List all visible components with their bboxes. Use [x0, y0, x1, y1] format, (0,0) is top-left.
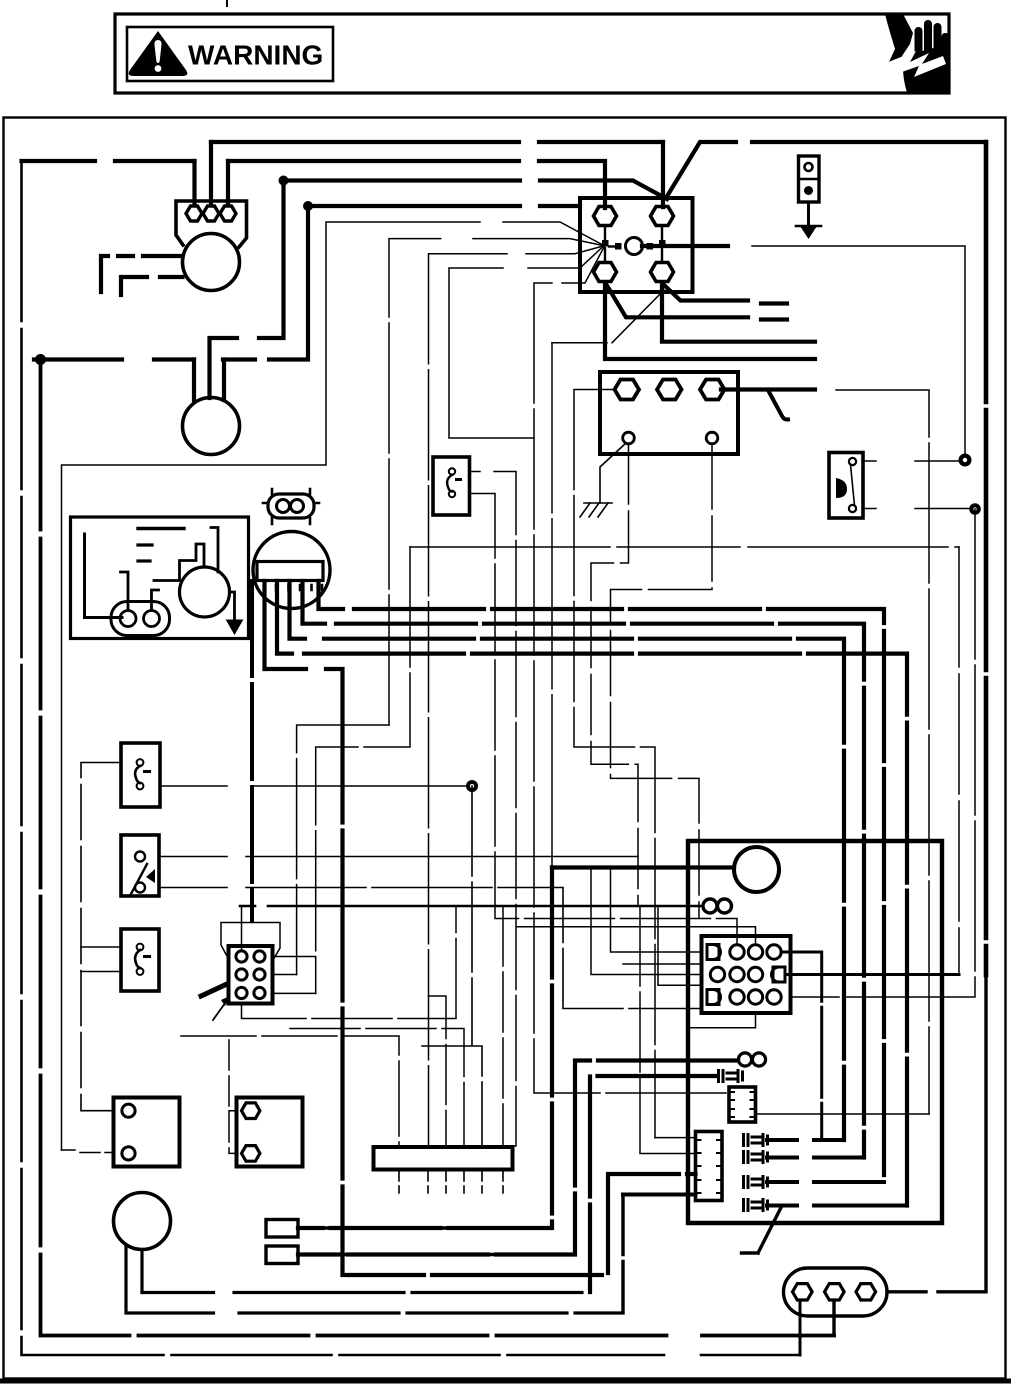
- compressor oval pin 2: [291, 500, 304, 513]
- strip wire y1137.6: [655, 1137, 696, 1139]
- TB terminal1 drop: [591, 444, 638, 906]
- TB hex 3: [700, 380, 725, 400]
- 6pin bottom pin wire to igniter lattice: [242, 906, 457, 1019]
- wire L4: [308, 204, 580, 208]
- TB ground symbol: [600, 443, 626, 503]
- control board arrow to ground: [230, 592, 235, 620]
- blower motor circle: [183, 234, 240, 291]
- igniter bar: [374, 1147, 513, 1170]
- switch1 left wire: [81, 763, 121, 1111]
- 12-pin row3: [707, 990, 721, 1005]
- 12-pin row1: [707, 945, 721, 960]
- plug pair feed wire: [590, 1076, 718, 1292]
- rect1 wire: [298, 1226, 552, 1229]
- TB disconnect lever: [768, 390, 788, 420]
- contactor hex bottom-right: [651, 263, 674, 282]
- bottom-left terminal box 1: [114, 1098, 180, 1167]
- switchB wires (middle small switch): [470, 472, 517, 1147]
- warning banner inner box: [127, 27, 333, 81]
- 12pin left wire y985: [658, 906, 702, 985]
- compressor pin2 wire: [265, 581, 696, 1275]
- control board dash 2: [138, 543, 152, 546]
- lattice y1036: [181, 1036, 399, 1147]
- switch2 top wire: [159, 856, 638, 858]
- board oval terminal circle 2: [144, 611, 160, 627]
- relay coil feed wire: [552, 865, 734, 869]
- contactor hexBR diagonal wire: [663, 284, 748, 301]
- wire right main vertical: [984, 142, 989, 975]
- blower plug terminal hex 3: [220, 206, 236, 221]
- wire blower hex1 drop: [192, 161, 196, 203]
- limit switch 2 box: [121, 835, 159, 896]
- middle limit switch box: [433, 457, 470, 515]
- oval hex 3: [856, 1284, 876, 1300]
- 6-pin connector block: [229, 946, 273, 1004]
- fuse / sensor device: [799, 156, 820, 202]
- gas valve line 1: [142, 1291, 590, 1294]
- relay coil circle: [734, 847, 779, 892]
- gas valve line 2: [126, 1245, 623, 1313]
- contactor hex top-left: [594, 207, 617, 226]
- gas valve drop 1: [140, 1250, 143, 1293]
- contactor wire left stub: [609, 245, 615, 247]
- 6-pin pointer arrow thin: [213, 999, 228, 1020]
- wire valve line2 riser: [621, 1195, 624, 1313]
- wire L3: [284, 181, 668, 200]
- gas valve circle: [114, 1193, 171, 1250]
- node dot A: [279, 176, 289, 186]
- node dot B: [303, 201, 313, 211]
- TB round terminal 1: [623, 432, 635, 444]
- 6-pin pointer arrow thick: [201, 984, 227, 996]
- board oval terminal circle 1: [120, 611, 136, 627]
- control board box: [71, 517, 249, 639]
- 12pin col3 top wire: [516, 927, 756, 945]
- wire dot E drop: [791, 509, 976, 997]
- limit switch 2 contacts: [135, 852, 145, 862]
- control board step trace: [154, 544, 204, 581]
- TB hex 1: [615, 380, 640, 400]
- 6pin right top/bottom wires: [273, 957, 316, 994]
- oval hex 1: [793, 1284, 813, 1300]
- pressure switch bottom wire: [863, 508, 970, 510]
- lattice jog 996: [429, 996, 447, 1147]
- wire blower hex2 drop: [209, 142, 213, 203]
- lattice y1028: [290, 1029, 464, 1148]
- wire blower hex3 drop: [226, 161, 230, 203]
- switch1 dot drop: [422, 786, 482, 1147]
- bus y906: [240, 905, 703, 908]
- compressor plug pin ticks: [264, 585, 322, 590]
- node dot D: [959, 454, 972, 467]
- compressor oval pin 1: [277, 500, 290, 513]
- wire dot C drop: [41, 360, 835, 1336]
- indicator circles 88: [703, 899, 717, 913]
- fan wire 4: [449, 247, 603, 439]
- contactor hexBL down wire: [605, 284, 815, 359]
- switch3 left wires: [81, 947, 121, 972]
- plug row1 wire: [767, 1138, 844, 1142]
- wire contactor coil right: [642, 244, 728, 248]
- node dot E: [969, 503, 981, 515]
- plug symbol row 4: [744, 1200, 768, 1211]
- 12pin row2 right wire: [785, 973, 959, 976]
- wire left border run: [22, 161, 801, 1355]
- wire condenser plug drops: [194, 360, 224, 401]
- control board terminal oval: [111, 602, 170, 636]
- blower plug terminal hex 1: [186, 206, 202, 221]
- pressure switch: [829, 453, 863, 519]
- bottom heavy border line: [0, 1379, 1011, 1384]
- TB terminal2 drop: [611, 444, 713, 919]
- wire L3 drop to y338: [210, 181, 284, 399]
- small relay box: [729, 1087, 756, 1122]
- oval hex1 drop: [799, 1301, 802, 1355]
- thin dashed mid wire: [410, 546, 959, 548]
- wire thin right to dot: [752, 246, 965, 455]
- 12pin left wire y964: [623, 963, 702, 965]
- wire x552 main drop to rect1: [298, 868, 552, 1229]
- plug row4 wire: [767, 1204, 907, 1208]
- switch1 right wire: [160, 785, 472, 787]
- compressor pin6 wire: [319, 581, 885, 1182]
- plug row3 wire: [767, 1180, 884, 1184]
- plug pair symbol upper: [719, 1071, 743, 1082]
- control board dash 1: [138, 527, 184, 530]
- 6pin shell pin wire: [241, 906, 243, 950]
- pointer to connector strip: [742, 1208, 782, 1254]
- thin enclosure outline: [62, 222, 604, 1150]
- middle switch bottom wire: [470, 494, 738, 946]
- 6-pin connector shell outline: [221, 923, 280, 961]
- lattice x503: [502, 906, 504, 1147]
- wire L4 drop to y359: [34, 206, 308, 360]
- oval right wire: [887, 975, 986, 1292]
- 6pin right mid wire: [273, 974, 297, 976]
- warning banner outer box: [115, 14, 949, 93]
- plug row2 wire: [767, 1156, 864, 1160]
- electric hand icon: [885, 14, 949, 93]
- contactor hex bottom-left: [594, 263, 617, 282]
- igniter lower pin dashes: [399, 1172, 503, 1193]
- oval hex2 drop: [832, 1301, 835, 1336]
- box2 feed wires: [229, 1040, 237, 1153]
- condenser motor circle: [183, 398, 240, 455]
- TB hex3 right wire: [721, 387, 815, 391]
- wire 12pin row1col4 right: [781, 952, 822, 1140]
- plug symbol row 2: [744, 1152, 768, 1163]
- TB hex1 left wire: [574, 390, 655, 1138]
- contactor pole lines: [605, 227, 662, 260]
- node dot F: [466, 780, 478, 792]
- contactor hexBR down wire: [662, 284, 815, 342]
- 12pin row2 left wire: [591, 868, 702, 975]
- quick connect rect 2: [266, 1246, 298, 1264]
- fan wire 2 lower jog: [297, 725, 389, 975]
- contactor coil circle: [626, 238, 643, 255]
- wire x959 drop: [958, 547, 960, 975]
- limit switch 3 box: [121, 929, 159, 991]
- quick connect rect 1: [266, 1220, 298, 1238]
- strip wire y1194: [623, 1193, 696, 1197]
- wire x410 drop: [316, 547, 410, 993]
- 88 pair feed wire: [298, 1061, 738, 1255]
- fan wire 2: [389, 239, 603, 725]
- 12pin row1 left wire: [611, 868, 702, 953]
- compressor pin5 wire: [303, 581, 865, 1158]
- connector strip: [696, 1132, 723, 1201]
- control board dash 3: [138, 559, 150, 562]
- control board right trace: [211, 528, 218, 573]
- blower motor plug shell: [176, 201, 247, 247]
- compressor pin1 wire: [250, 581, 254, 920]
- limit switch 3 contacts: [137, 944, 144, 951]
- fuse ground lead: [807, 202, 810, 226]
- double dash lower: [761, 317, 787, 321]
- limit switch 1 contacts: [137, 759, 144, 766]
- warning triangle icon: [129, 31, 188, 76]
- compressor circle: [253, 532, 330, 609]
- plug symbol row 1: [744, 1135, 768, 1146]
- fan wire 3 long vertical: [429, 246, 604, 1147]
- thin wire to hexBR: [552, 290, 664, 343]
- ground arrow: [796, 225, 821, 228]
- wire L2 dashed top left: [22, 159, 195, 163]
- TB hex3 thin continuation: [836, 390, 929, 1114]
- 12-pin connector block: [702, 936, 791, 1013]
- compressor oval corner stubs: [263, 489, 319, 524]
- switch2 bottom wire: [159, 888, 702, 1009]
- relay enclosure box: [688, 841, 942, 1223]
- contactor hexBL diagonal wire: [606, 284, 748, 317]
- small relay box right wire: [756, 1113, 930, 1115]
- wire hexTR drop: [661, 142, 665, 207]
- wire blower left stub 2: [121, 277, 183, 295]
- indicator circles 88 lower: [738, 1053, 751, 1066]
- board terminal risers: [121, 572, 159, 611]
- contactor box: [580, 198, 693, 292]
- pressure switch top wire: [863, 460, 960, 462]
- TB round terminal 2: [706, 432, 718, 444]
- wire blower left stub 1: [101, 256, 183, 292]
- control board relay circle: [180, 567, 230, 617]
- compressor pin3 wire: [277, 581, 907, 1206]
- wire L1 top: [211, 140, 663, 144]
- double dash upper: [761, 301, 787, 305]
- svg-text:WARNING: WARNING: [188, 40, 323, 71]
- enclosure bottom dash: [62, 1150, 114, 1153]
- oval hex 2: [825, 1284, 845, 1300]
- bottom oval connector: [784, 1268, 888, 1316]
- fan wire 5: [534, 247, 729, 1093]
- 12-pin row2: [710, 967, 724, 981]
- strip thin wire y1153: [640, 906, 696, 1154]
- compressor top oval connector: [268, 494, 314, 518]
- bottom-left terminal box 2: [237, 1098, 303, 1167]
- plug symbol row 3: [744, 1177, 768, 1188]
- compressor plug bar: [257, 562, 323, 581]
- node dot C: [35, 354, 46, 365]
- limit switch 1 box: [121, 743, 160, 807]
- blower plug terminal hex 2: [203, 206, 219, 221]
- compressor pin4 wire: [290, 581, 845, 1140]
- wire L2 right run to contactor: [228, 161, 605, 208]
- TB hex 2: [657, 380, 682, 400]
- wire L1 diagonal over contactor: [666, 142, 986, 198]
- 12pin row3col3 drop wire: [688, 1013, 756, 1028]
- terminal block box: [600, 372, 738, 454]
- gas valve run via jog: [551, 343, 553, 866]
- rect2 wire: [298, 1253, 575, 1256]
- contactor hex top-right: [651, 207, 674, 226]
- contactor contact dots: [602, 240, 609, 247]
- control board inner L trace: [85, 534, 123, 618]
- top edge tick: [226, 0, 228, 6]
